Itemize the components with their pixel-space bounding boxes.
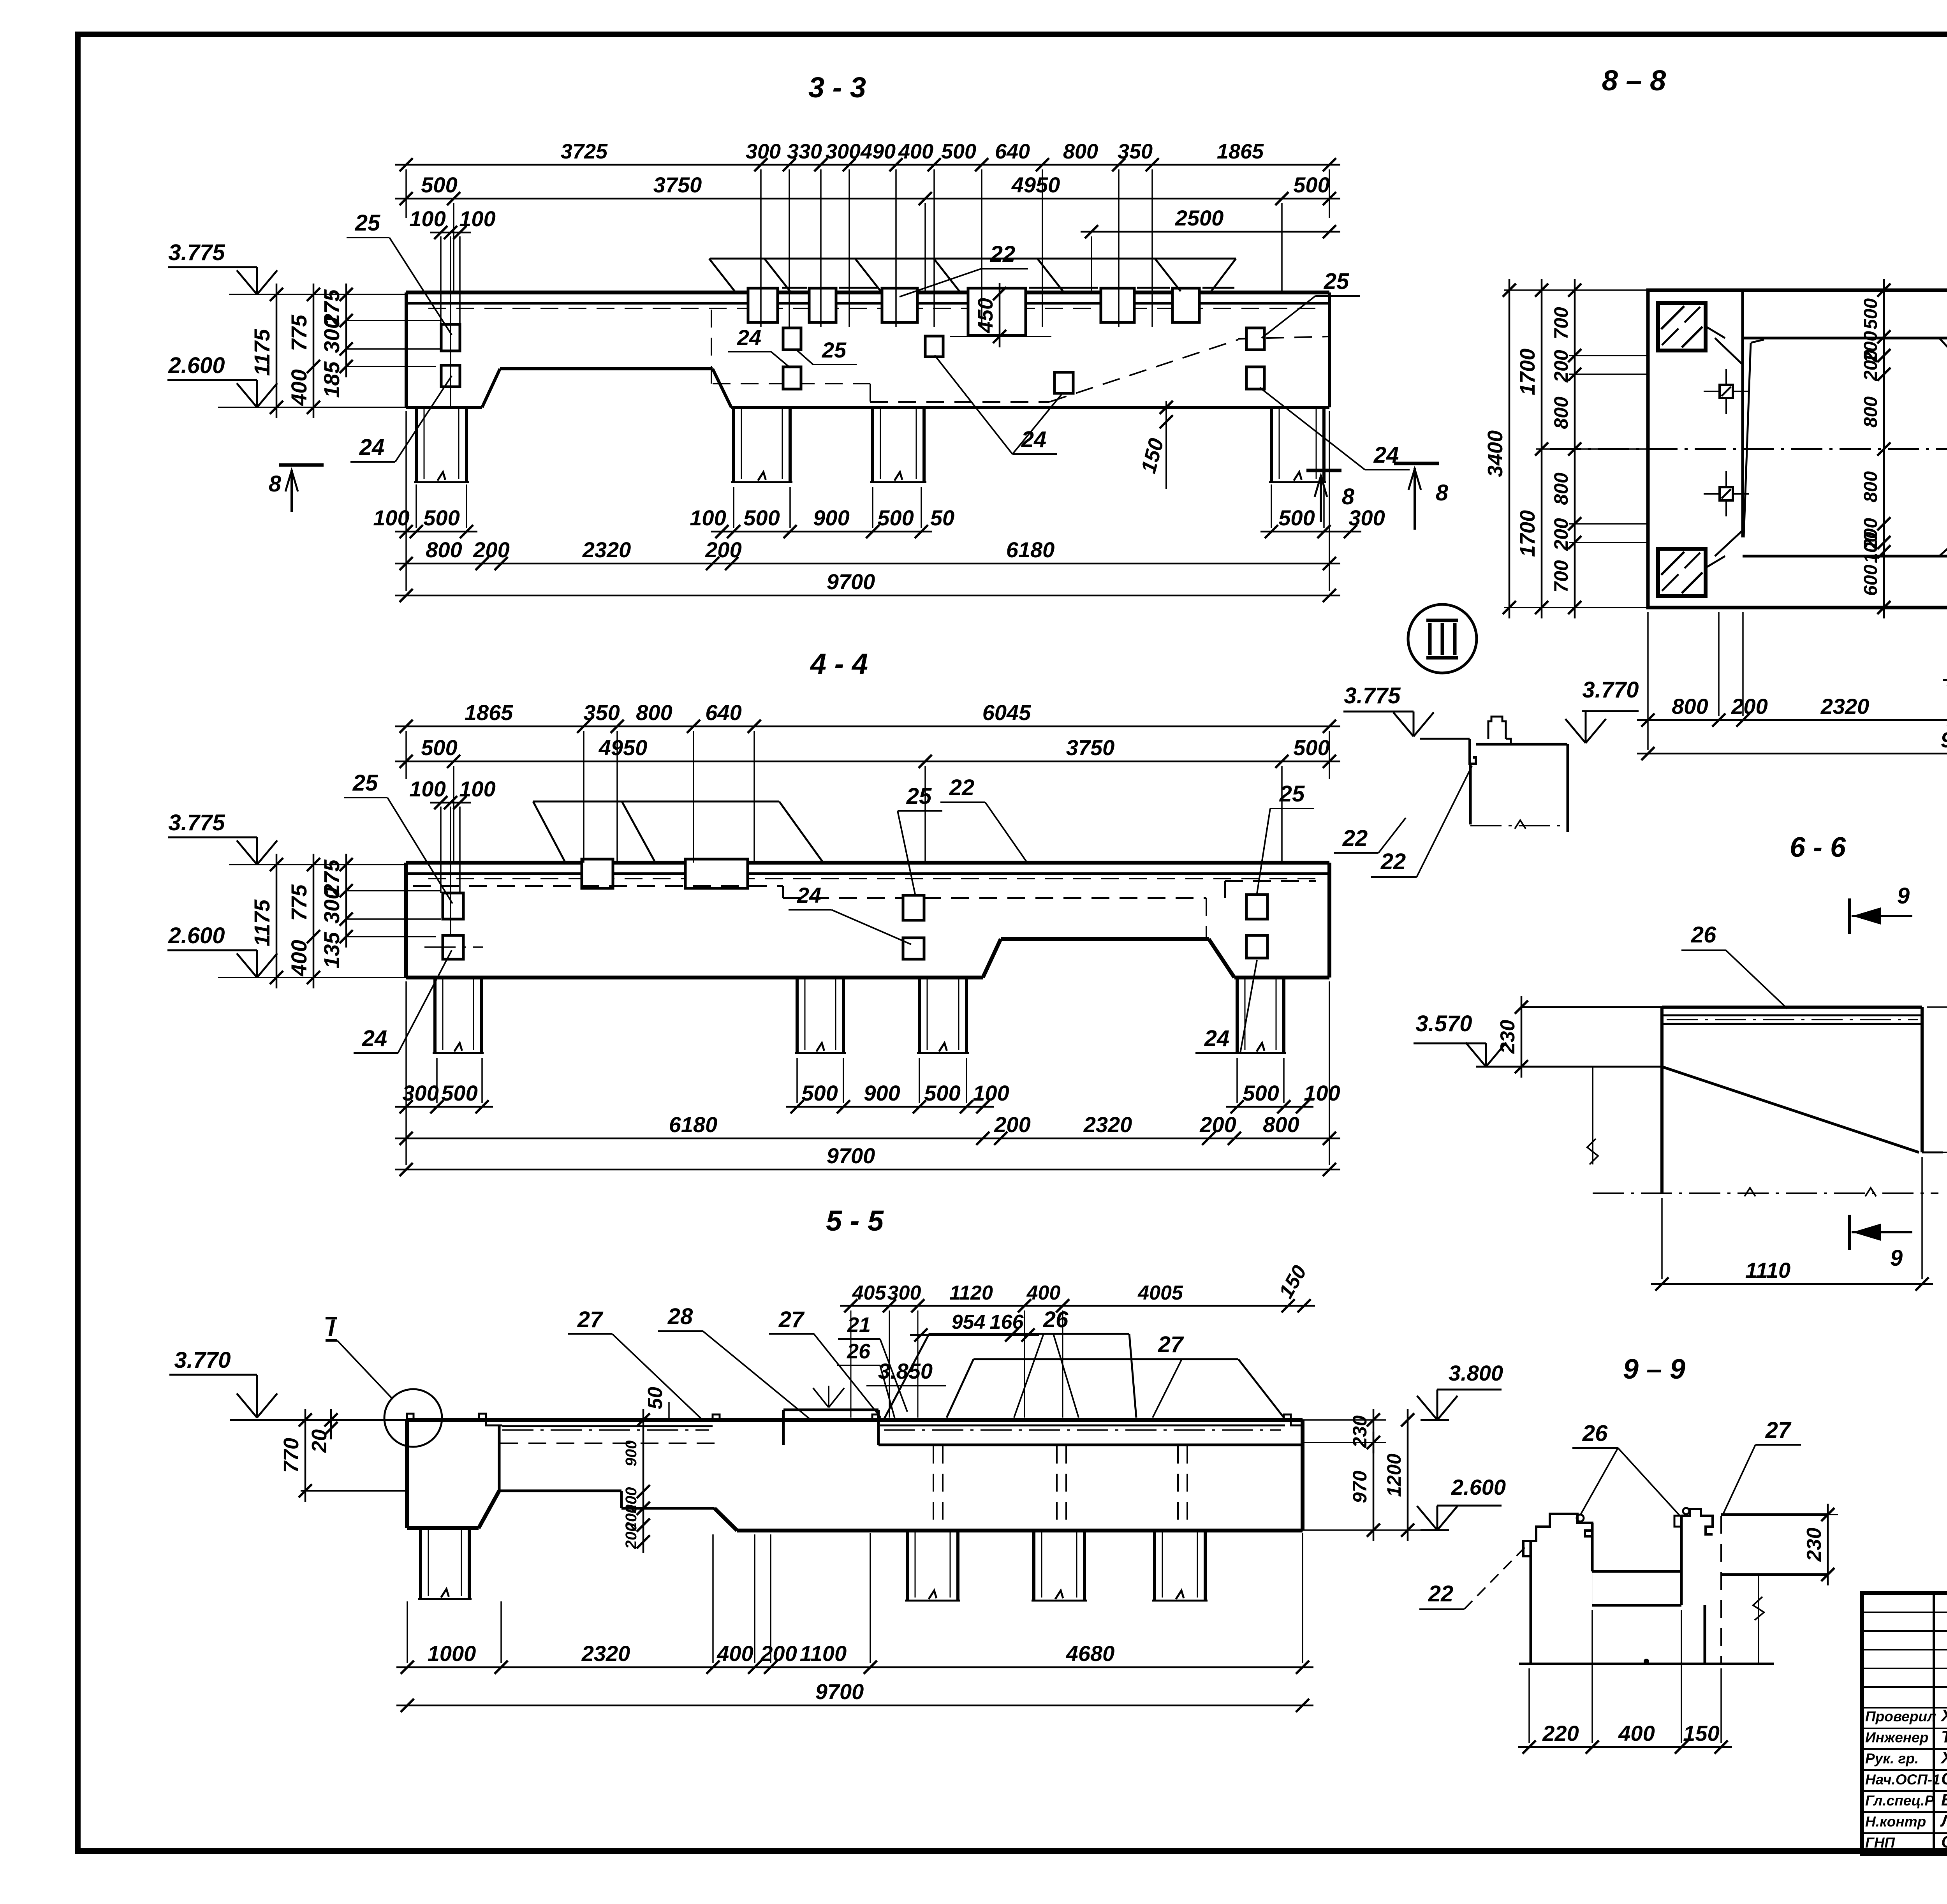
section 9-9 vertical dim with break (1758, 1575, 1759, 1664)
section 5-5 bottom dim row1 (396, 1666, 1313, 1668)
svg-text:6180: 6180 (669, 1112, 718, 1137)
section 9-9 left tooth profile (1530, 1541, 1532, 1664)
svg-text:8 – 8: 8 – 8 (1602, 64, 1666, 97)
svg-text:Саакьянц: Саакьянц (1941, 1769, 1947, 1788)
svg-text:22: 22 (1428, 1581, 1454, 1606)
svg-text:500: 500 (421, 173, 457, 197)
svg-text:50: 50 (930, 506, 954, 530)
svg-text:3.775: 3.775 (168, 810, 225, 835)
svg-text:Нач.ОСП-1: Нач.ОСП-1 (1865, 1772, 1940, 1788)
section 4-4 top dim row1 (395, 726, 1340, 727)
section 3-3 dim 150 vertical right (1165, 401, 1167, 489)
svg-text:9: 9 (1890, 1245, 1903, 1271)
svg-text:300: 300 (402, 1081, 438, 1105)
section 8-8 centerline axis (1550, 448, 1947, 450)
svg-text:800: 800 (1672, 694, 1708, 719)
svg-text:500: 500 (1293, 735, 1329, 760)
svg-text:600: 600 (1861, 565, 1881, 596)
svg-text:1120: 1120 (949, 1282, 993, 1304)
svg-text:1175: 1175 (250, 899, 274, 946)
section 3-3 bottom dim 9700 (395, 595, 1340, 597)
svg-text:500: 500 (421, 735, 457, 760)
section 6-6 dim 1110 bottom (1651, 1283, 1933, 1285)
svg-text:3.770: 3.770 (174, 1347, 231, 1373)
svg-text:100: 100 (459, 206, 495, 231)
svg-text:400: 400 (287, 940, 311, 976)
svg-text:100: 100 (409, 777, 445, 801)
svg-text:970: 970 (1349, 1471, 1371, 1503)
svg-text:2500: 2500 (1175, 206, 1224, 230)
svg-text:22: 22 (990, 241, 1016, 267)
svg-text:500: 500 (441, 1081, 477, 1105)
svg-text:8: 8 (1436, 480, 1449, 506)
section 5-5 right vertical dims 230/970/1200 (1373, 1409, 1375, 1453)
svg-text:22: 22 (1380, 849, 1406, 874)
section 3-3 slab outline (405, 292, 408, 407)
svg-text:4 - 4: 4 - 4 (810, 648, 868, 680)
svg-text:1865: 1865 (465, 700, 513, 725)
section 9-9 web between teeth (1592, 1570, 1681, 1573)
svg-text:22: 22 (1342, 826, 1368, 851)
svg-text:1110: 1110 (1745, 1258, 1790, 1282)
section 4-4 dim 100-100 (430, 802, 471, 804)
section 4-4 hidden dashed outline (413, 885, 783, 887)
svg-text:500: 500 (1293, 173, 1329, 197)
section 4-4 bottom dims row1 (395, 1106, 493, 1108)
section 4-4 bottom dim 9700 (395, 1169, 1340, 1171)
section 3-3 bottom dim row2 (395, 563, 1340, 565)
section 8-8 internal vertical chain (1883, 279, 1885, 618)
section 8-8 bottom dim 9700 (1637, 753, 1947, 755)
section 8-8 recess wedge (1751, 340, 1764, 343)
svg-text:24: 24 (737, 325, 761, 350)
svg-text:200: 200 (705, 537, 741, 562)
title block main designation cell (1862, 1591, 1947, 1595)
section 6-6 plate lines (1662, 1015, 1922, 1016)
section 5-5 middle step outline (499, 1490, 621, 1492)
section 8-8 plan outer rectangle (1648, 290, 1947, 608)
section 5-5 mid vertical chain 900/200/200/200 (643, 1409, 644, 1553)
section 5-5 left step extension line (301, 1490, 407, 1492)
svg-text:500: 500 (1278, 506, 1315, 530)
section 6-6 block outline (1662, 1006, 1922, 1009)
section 4-4 top pockets (582, 859, 613, 888)
detail 22 profile (1470, 739, 1476, 764)
svg-text:26: 26 (847, 1340, 871, 1363)
svg-text:27: 27 (1158, 1332, 1184, 1357)
svg-text:400: 400 (1026, 1282, 1061, 1304)
section 3-3 top dimension chain row2 (395, 198, 1340, 200)
svg-text:2320: 2320 (1820, 694, 1870, 719)
svg-text:800: 800 (1550, 472, 1572, 505)
svg-text:450: 450 (974, 298, 997, 333)
svg-text:3.800: 3.800 (1449, 1361, 1503, 1385)
section 5-5 roofs item 27 outline (974, 1358, 1238, 1360)
section 9-9 dim 230 right (1827, 1504, 1829, 1585)
svg-text:800: 800 (1550, 396, 1572, 429)
section 8-8 hatched squares (1658, 303, 1706, 351)
section 8-8 bottom dim 400 200 1100 (1943, 679, 1947, 681)
section 5-5 left vertical dims 770/20 (305, 1409, 306, 1502)
svg-text:26: 26 (1582, 1421, 1608, 1446)
svg-text:1700: 1700 (1516, 349, 1539, 395)
section 3-3 dim 100-100 (430, 232, 471, 234)
svg-text:200: 200 (760, 1641, 797, 1666)
svg-text:26: 26 (1043, 1307, 1069, 1332)
section 6-6 section marker 9 top (1848, 898, 1851, 934)
section 3-3 top plate lines (406, 291, 1329, 294)
svg-text:300: 300 (319, 887, 344, 923)
svg-text:6 - 6: 6 - 6 (1790, 832, 1846, 863)
svg-text:800: 800 (1861, 471, 1881, 502)
svg-text:500: 500 (801, 1081, 838, 1105)
section 5-5 plate underside lines (502, 1425, 713, 1427)
svg-text:700: 700 (1550, 307, 1572, 340)
svg-text:Осташевски: Осташевски (1941, 1832, 1947, 1851)
svg-text:9700: 9700 (827, 569, 875, 594)
svg-text:3725: 3725 (561, 140, 608, 163)
svg-text:150: 150 (1683, 1721, 1719, 1745)
svg-text:640: 640 (705, 700, 741, 725)
svg-text:Бодруенко: Бодруенко (1941, 1790, 1947, 1809)
svg-text:1200: 1200 (1383, 1453, 1405, 1497)
section 3-3 hidden dashed pit outline (711, 310, 712, 384)
section 8-8 recess chamfers (1715, 338, 1743, 365)
section 3-3 left vertical dims (276, 284, 278, 418)
section 6-6 section marker 9 bottom (1848, 1215, 1851, 1250)
section 8-8 left recess outline (1741, 290, 1744, 537)
svg-text:330: 330 (787, 140, 822, 163)
svg-text:8: 8 (1342, 484, 1355, 509)
svg-text:100: 100 (409, 206, 445, 231)
section 3-3 legs (415, 407, 418, 482)
section 4-4 legs (433, 978, 437, 1053)
svg-text:1175: 1175 (250, 329, 274, 376)
svg-text:200: 200 (1199, 1112, 1236, 1137)
svg-text:166: 166 (990, 1311, 1024, 1333)
section 9-9 bottom dims (1518, 1746, 1732, 1748)
section 5-5 detail I circle (384, 1389, 442, 1447)
svg-text:490: 490 (860, 140, 896, 163)
svg-text:24: 24 (1204, 1026, 1230, 1051)
section 5-5 raised block 3.850 (783, 1409, 878, 1411)
svg-text:500: 500 (877, 506, 914, 530)
section 8-8 section marker 8 left (1394, 462, 1439, 465)
svg-text:3.850: 3.850 (878, 1359, 933, 1383)
svg-text:9700: 9700 (1941, 727, 1947, 752)
signature table (1862, 1593, 1947, 1854)
section 3-3 section marker 8 left (279, 463, 324, 467)
svg-text:27: 27 (778, 1307, 805, 1332)
svg-text:9700: 9700 (827, 1143, 875, 1168)
svg-text:3750: 3750 (653, 173, 702, 197)
svg-text:27: 27 (1765, 1418, 1792, 1443)
section 5-5 bottom dim 9700 (396, 1705, 1313, 1707)
section 3-3 top dimension chain row1 (395, 164, 1340, 166)
svg-text:9: 9 (1897, 883, 1910, 909)
svg-text:Проверил: Проверил (1865, 1708, 1936, 1724)
svg-text:100: 100 (1861, 532, 1881, 563)
svg-text:770: 770 (280, 1438, 303, 1473)
svg-text:400: 400 (1618, 1721, 1655, 1745)
svg-text:25: 25 (355, 210, 380, 236)
svg-text:135: 135 (319, 932, 344, 968)
section 6-6 baseline dash-dot (1593, 1192, 1938, 1194)
svg-text:2.600: 2.600 (168, 923, 225, 948)
section 3-3 top pockets (748, 288, 778, 322)
svg-text:954: 954 (952, 1311, 986, 1333)
svg-text:200: 200 (1861, 350, 1881, 381)
svg-text:2320: 2320 (581, 1641, 630, 1666)
svg-text:25: 25 (822, 338, 847, 362)
section 9-9 right part (1721, 1513, 1828, 1516)
svg-text:200: 200 (1550, 518, 1572, 551)
svg-text:400: 400 (716, 1641, 753, 1666)
svg-text:775: 775 (287, 884, 311, 921)
svg-text:100: 100 (1304, 1081, 1340, 1105)
svg-text:640: 640 (995, 140, 1030, 163)
svg-text:775: 775 (287, 314, 311, 351)
svg-text:200: 200 (994, 1112, 1030, 1137)
section 5-5 hidden leg dashes (933, 1446, 934, 1529)
svg-text:24: 24 (362, 1026, 387, 1051)
svg-text:350: 350 (583, 700, 620, 725)
section 9-9 baseline (1519, 1663, 1774, 1665)
svg-text:100: 100 (459, 777, 495, 801)
section 6-6 top extension line and 230 dim (1522, 1006, 1662, 1008)
svg-text:1865: 1865 (1217, 140, 1264, 163)
section 4-4 top plate lines (406, 861, 1329, 865)
svg-text:300: 300 (746, 140, 781, 163)
svg-text:3.770: 3.770 (1582, 677, 1639, 703)
svg-text:2.600: 2.600 (1451, 1475, 1506, 1499)
svg-text:22: 22 (949, 775, 975, 800)
svg-text:Рук. гр.: Рук. гр. (1865, 1751, 1919, 1767)
section 5-5 top surface (278, 1419, 407, 1421)
svg-text:405: 405 (852, 1282, 887, 1304)
svg-text:Ханин: Ханин (1940, 1706, 1947, 1725)
svg-text:300: 300 (826, 140, 861, 163)
svg-text:3.775: 3.775 (168, 240, 225, 265)
svg-text:6045: 6045 (982, 700, 1031, 725)
section 3-3 dim 2500 (1081, 231, 1340, 233)
svg-text:900: 900 (623, 1441, 640, 1467)
svg-text:500: 500 (941, 140, 976, 163)
svg-text:1700: 1700 (1516, 510, 1539, 557)
svg-text:4680: 4680 (1066, 1641, 1115, 1666)
svg-text:200: 200 (1731, 694, 1767, 719)
svg-text:1100: 1100 (800, 1641, 847, 1666)
svg-text:800: 800 (1063, 140, 1098, 163)
svg-text:200: 200 (473, 537, 509, 562)
section 6-6 left vertical line with break (1592, 1067, 1593, 1164)
section 8-8 bolt crosses (1704, 391, 1749, 392)
svg-text:2320: 2320 (582, 537, 631, 562)
section 8-8 bottom dim row2 (1637, 719, 1947, 721)
svg-text:28: 28 (667, 1304, 693, 1329)
svg-text:8: 8 (269, 471, 282, 497)
section 4-4 left vertical dims (276, 854, 278, 988)
svg-text:5 - 5: 5 - 5 (826, 1205, 884, 1237)
svg-text:500: 500 (1243, 1081, 1279, 1105)
svg-text:500: 500 (743, 506, 780, 530)
section 4-4 anchor squares (443, 893, 463, 919)
roman numeral III in circle (1408, 604, 1477, 673)
svg-text:700: 700 (1550, 560, 1572, 593)
section 4-4 top dim row2 (395, 761, 1340, 763)
svg-text:20: 20 (308, 1429, 331, 1453)
svg-text:185: 185 (319, 361, 344, 398)
svg-text:800: 800 (426, 537, 462, 562)
section 9-9 right tooth profile (1680, 1516, 1683, 1571)
section 5-5 roofs item 26 outline (929, 1333, 1129, 1335)
svg-text:Ханин: Ханин (1940, 1748, 1947, 1767)
svg-text:4950: 4950 (599, 735, 648, 760)
svg-text:50: 50 (644, 1387, 667, 1409)
section 5-5 band underside right (878, 1444, 1303, 1446)
svg-text:9 – 9: 9 – 9 (1623, 1354, 1685, 1385)
section 5-5 top chains row1 (840, 1305, 1315, 1307)
svg-text:26: 26 (1691, 922, 1716, 948)
svg-text:4005: 4005 (1137, 1282, 1183, 1304)
svg-text:200: 200 (1550, 350, 1572, 383)
section 3-3 dim 450 vertical in pocket (999, 283, 1001, 347)
section 4-4 slab outline (404, 863, 408, 978)
svg-text:500: 500 (423, 506, 459, 530)
svg-text:300: 300 (319, 317, 344, 353)
svg-text:25: 25 (1324, 269, 1349, 294)
section 3-3 bottom dim row1 (395, 531, 477, 533)
svg-text:ГНП: ГНП (1865, 1835, 1895, 1851)
svg-text:350: 350 (1118, 140, 1153, 163)
svg-text:800: 800 (1263, 1112, 1299, 1137)
svg-text:500: 500 (924, 1081, 960, 1105)
svg-text:100: 100 (373, 506, 409, 530)
svg-text:4950: 4950 (1011, 173, 1060, 197)
svg-text:Гл.спец.Р.: Гл.спец.Р. (1865, 1793, 1936, 1809)
svg-text:3.570: 3.570 (1415, 1011, 1472, 1036)
svg-text:400: 400 (287, 369, 311, 406)
section 3-3 item 22 inclined plates on top (710, 258, 1236, 260)
section 4-4 item 22 inclined plates (533, 801, 779, 803)
section 5-5 legs (419, 1528, 422, 1599)
svg-text:230: 230 (1803, 1528, 1826, 1562)
title block outer (1862, 1593, 1947, 1854)
section 5-5 left block outline (405, 1420, 409, 1528)
svg-text:Н.контр: Н.контр (1865, 1814, 1926, 1830)
svg-text:25: 25 (906, 784, 932, 809)
svg-text:25: 25 (1279, 781, 1305, 807)
svg-text:800: 800 (636, 700, 672, 725)
svg-text:Инженер: Инженер (1865, 1730, 1928, 1745)
svg-text:25: 25 (352, 770, 378, 796)
svg-text:2.600: 2.600 (168, 353, 225, 378)
section 4-4 bottom dims row2 (395, 1138, 1340, 1140)
svg-text:6180: 6180 (1006, 537, 1055, 562)
section 8-8 left dim chains (1509, 279, 1510, 618)
svg-text:3400: 3400 (1484, 430, 1507, 477)
svg-text:24: 24 (359, 435, 385, 460)
svg-text:100: 100 (973, 1081, 1009, 1105)
svg-text:3.775: 3.775 (1344, 683, 1401, 708)
section 5-5 step notches on top (407, 1414, 414, 1420)
svg-text:220: 220 (1542, 1721, 1579, 1745)
section 3-3 anchor squares item 25/24 (441, 324, 460, 351)
svg-text:400: 400 (898, 140, 933, 163)
svg-text:24: 24 (797, 883, 821, 907)
svg-text:27: 27 (577, 1307, 604, 1332)
section 3-3 section marker 8 right (1306, 469, 1341, 472)
svg-text:300: 300 (887, 1282, 921, 1304)
svg-text:9700: 9700 (815, 1679, 864, 1704)
svg-text:1000: 1000 (428, 1641, 476, 1666)
svg-text:Луценко: Луценко (1940, 1811, 1947, 1830)
svg-text:200: 200 (623, 1523, 640, 1550)
svg-text:500: 500 (1861, 298, 1881, 329)
svg-text:2320: 2320 (1083, 1112, 1132, 1137)
section 5-5 top chain row2 954/166 (910, 1334, 1039, 1336)
svg-text:Толмачева: Толмачева (1941, 1727, 1947, 1746)
svg-text:900: 900 (813, 506, 849, 530)
svg-text:800: 800 (1861, 396, 1881, 428)
svg-text:900: 900 (864, 1081, 900, 1105)
svg-text:3 - 3: 3 - 3 (808, 71, 866, 104)
svg-text:100: 100 (690, 506, 726, 530)
svg-text:3750: 3750 (1066, 735, 1115, 760)
